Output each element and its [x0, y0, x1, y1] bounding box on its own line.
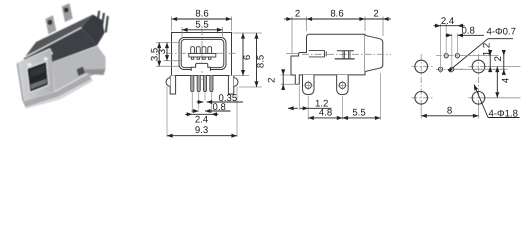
photo: flange right shadow: [84, 69, 106, 75]
bottom notch tab: [191, 63, 210, 71]
dim 8 fp: [421, 115, 478, 117]
leader 4-phi1.8: [474, 85, 488, 118]
svg-text:8.6: 8.6: [330, 9, 343, 20]
dim 6: [242, 33, 244, 76]
ext hook top: [286, 52, 299, 54]
small hole 2: [444, 54, 448, 58]
dim 2 fp: [503, 56, 505, 70]
svg-text:8.5: 8.5: [256, 55, 267, 68]
internal clip: [309, 51, 326, 57]
centerline vertical: [201, 29, 203, 81]
dim 2.4 fp: [434, 25, 441, 27]
side leg 1: [303, 75, 315, 95]
svg-text:2: 2: [373, 9, 378, 20]
dim 1.2: [288, 107, 298, 109]
cap flange: [365, 35, 383, 71]
dim 1.2 fp: [489, 56, 491, 67]
ext lines 6/8.5: [233, 32, 263, 34]
svg-text:4.8: 4.8: [319, 108, 332, 119]
dim 5.5: [182, 29, 223, 31]
svg-text:9.3: 9.3: [195, 125, 208, 136]
port outer: [179, 38, 226, 70]
photo: port inner contact: [31, 65, 46, 78]
photo: plastic body front face: [20, 28, 97, 69]
side leg 2 hole: [339, 82, 345, 88]
dim chain 2 / 8.6 / 2: [284, 18, 292, 20]
photo: shell front face: [17, 49, 55, 102]
contact comb teeth: [191, 57, 211, 59]
photo: flange top bright edge: [55, 74, 88, 92]
svg-text:6: 6: [242, 55, 253, 60]
small hole 4: [455, 54, 459, 58]
right ext lines: [454, 56, 520, 98]
dim 5.5: [342, 117, 380, 119]
dim 4 fp: [496, 67, 498, 98]
centerlines big circles: [412, 54, 490, 110]
side leg 2: [337, 75, 349, 95]
body with hook: [291, 34, 365, 84]
ext lines 5.5: [181, 27, 183, 37]
photo: ground shadow: [24, 78, 93, 109]
right leg: [228, 76, 233, 95]
side leg 1 hole: [305, 82, 311, 88]
svg-text:0.8: 0.8: [213, 102, 226, 113]
svg-text:4-Φ1.8: 4-Φ1.8: [489, 108, 519, 119]
photo: plastic body top face: [25, 15, 94, 58]
top ext lines: [292, 17, 383, 54]
svg-text:2.4: 2.4: [441, 16, 455, 27]
ext lines 8: [421, 105, 478, 119]
centerline: [302, 53, 391, 55]
dim 8.6: [172, 18, 232, 20]
dim 9.3: [167, 135, 237, 137]
pin 4: [210, 76, 213, 92]
ext lines 3.5/3: [156, 42, 179, 44]
big hole TL: [415, 60, 428, 73]
dim 0.35 leader: [207, 101, 243, 103]
big hole TR: [472, 60, 485, 73]
dim 0.8 fp: [446, 34, 452, 36]
svg-text:3: 3: [157, 49, 168, 54]
dim 8.5: [256, 33, 258, 87]
photo: metal leg tab 1: [45, 15, 56, 34]
svg-text:5.5: 5.5: [352, 108, 365, 119]
photo: shell top bevel: [17, 48, 53, 68]
centerline horizontal: [166, 52, 238, 54]
svg-text:8.6: 8.6: [195, 9, 208, 20]
port inner: [181, 39, 224, 67]
photo: back pins: [96, 11, 108, 33]
svg-text:4: 4: [500, 77, 511, 83]
contact comb loops: [191, 47, 212, 54]
svg-text:0.8: 0.8: [462, 25, 475, 36]
pin 3: [203, 76, 206, 92]
photo: metal leg tab 2: [62, 3, 73, 22]
photo: top highlight edge: [25, 28, 82, 58]
dim 2 left of hook: [282, 75, 284, 84]
svg-text:1.2: 1.2: [482, 43, 493, 56]
leader 4-phi0.7: [453, 39, 488, 68]
svg-text:2: 2: [493, 56, 504, 61]
ext lines up: [441, 24, 458, 73]
ext hook steps for dim 2 left: [281, 74, 291, 76]
photo: plastic body right end: [82, 15, 105, 46]
right ear: [234, 78, 238, 86]
photo: shell left edge shade: [17, 64, 23, 102]
dim 0.8 leader: [205, 110, 231, 112]
body outline: [172, 33, 232, 76]
pin 1: [191, 76, 194, 92]
ext lines 8.6: [171, 17, 173, 32]
small hole 1: [439, 67, 443, 71]
svg-text:5.5: 5.5: [195, 20, 208, 31]
photo: port rim bumps: [27, 57, 48, 66]
photo: bottom flange: [23, 74, 92, 108]
contact comb base: [189, 54, 216, 58]
side view dimensions: [267, 9, 391, 120]
big hole BR: [472, 92, 485, 105]
photo: port opening: [27, 61, 49, 92]
dim 3.5: [158, 43, 160, 67]
photo: side flange: [52, 46, 106, 93]
left ear: [166, 78, 170, 86]
dim 2.4: [185, 113, 192, 115]
pin 2: [197, 76, 200, 92]
bottom ext lines: [299, 73, 380, 120]
svg-text:8: 8: [447, 106, 452, 117]
svg-text:2: 2: [267, 78, 278, 83]
photo: port inner bottom reflection: [30, 79, 46, 90]
dim 3: [166, 43, 168, 61]
dim 4.8: [308, 117, 342, 119]
internal contacts: [335, 51, 355, 59]
svg-text:2: 2: [295, 9, 300, 20]
front view dimensions: [149, 9, 266, 137]
big hole BL: [415, 92, 428, 105]
svg-text:4-Φ0.7: 4-Φ0.7: [487, 26, 517, 37]
left leg: [170, 76, 175, 95]
ghost ext pins: [167, 87, 237, 138]
small hole 3: [450, 67, 454, 71]
photo: flange slot: [77, 67, 86, 77]
